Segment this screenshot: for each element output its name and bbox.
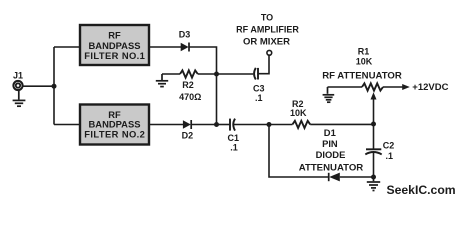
diode D1 (329, 173, 340, 182)
wiper arrow of R1 (371, 92, 377, 124)
wire wiper node to C2 (373, 124, 375, 149)
svg-text:SeekIC.com: SeekIC.com (387, 183, 456, 197)
svg-text:ATTENUATOR: ATTENUATOR (299, 162, 364, 173)
svg-text:10K: 10K (290, 108, 307, 118)
wire junction to C3 (217, 73, 254, 75)
wire ground to R2 (162, 73, 180, 75)
svg-text:D2: D2 (182, 130, 194, 140)
svg-text:C2: C2 (383, 140, 395, 150)
wire junction to R2 10K (269, 124, 293, 126)
svg-text:RF ATTENUATOR: RF ATTENUATOR (322, 71, 402, 82)
svg-text:C3: C3 (253, 83, 265, 93)
svg-text:J1: J1 (13, 71, 23, 81)
capacitor C1 (230, 119, 235, 131)
ground at J1 (13, 90, 26, 106)
resistor R2 10K (293, 121, 311, 128)
svg-text:10K: 10K (356, 57, 373, 67)
wire down-branch to D1 (269, 125, 328, 178)
ground at R1 (323, 87, 335, 102)
diode D3 (181, 43, 189, 52)
ground at R2 (156, 74, 168, 87)
svg-text:.1: .1 (386, 151, 394, 161)
wire to filter no.1 (54, 46, 80, 48)
wire R2 to junction (198, 73, 217, 75)
wire filter2 output to D2 (149, 124, 183, 126)
svg-text:D1: D1 (324, 127, 336, 138)
svg-text:PIN: PIN (322, 138, 338, 149)
wire filter1 output to D3 (149, 46, 181, 48)
block RF bandpass filter no.2 (80, 105, 149, 145)
arrow to +12VDC (402, 84, 410, 90)
wire ground to R1 (328, 86, 363, 88)
wire R2 10K to wiper node (310, 123, 373, 125)
node junction at C1 wire (214, 122, 219, 127)
svg-text:+12VDC: +12VDC (412, 82, 448, 93)
diode D2 (183, 120, 191, 129)
capacitor C2 (365, 149, 381, 154)
svg-text:.1: .1 (255, 93, 263, 103)
wire junction to C1 (217, 124, 231, 126)
svg-text:RF AMPLIFIER: RF AMPLIFIER (236, 25, 299, 35)
svg-text:DIODE: DIODE (316, 149, 346, 160)
svg-text:.1: .1 (230, 142, 238, 152)
potentiometer R1 10K (362, 83, 383, 90)
wire D2 to junction (191, 124, 216, 126)
node junction at R2/C3 tap (214, 72, 219, 77)
svg-text:OR MIXER: OR MIXER (243, 37, 290, 48)
label TO RF AMPLIFIER OR MIXER (236, 13, 299, 48)
node input junction (52, 84, 57, 89)
wire to filter no.2 (54, 124, 80, 126)
terminal to RF amplifier (267, 50, 272, 55)
wire J1 to input junction (23, 85, 54, 87)
node junction after C1 (267, 122, 272, 127)
wire C1 to junction (234, 124, 269, 126)
wire D1 to C2 ground node (340, 176, 374, 178)
wire D3 to corner and down (189, 47, 217, 125)
svg-text:FILTER NO.1: FILTER NO.1 (84, 50, 145, 61)
label D1 PIN DIODE ATTENUATOR (299, 127, 364, 173)
svg-text:R1: R1 (358, 47, 370, 57)
wire C3 up to output terminal (258, 56, 269, 74)
resistor R2 470 ohm (180, 70, 198, 77)
node wiper junction (371, 122, 376, 127)
capacitor C3 (254, 68, 258, 80)
block RF bandpass filter no.1 (80, 25, 149, 65)
node ground junction (371, 175, 376, 180)
wire input vertical bus (53, 47, 55, 125)
svg-text:D3: D3 (179, 30, 191, 40)
svg-text:470Ω: 470Ω (179, 92, 201, 102)
wire R1 to +12VDC arrow (383, 86, 403, 88)
connector J1 (13, 81, 22, 90)
svg-text:FILTER NO.2: FILTER NO.2 (84, 128, 145, 139)
svg-text:R2: R2 (182, 80, 194, 90)
ground at C2 (367, 177, 380, 191)
svg-text:TO: TO (261, 13, 273, 23)
wire C2 to ground node (373, 152, 375, 177)
